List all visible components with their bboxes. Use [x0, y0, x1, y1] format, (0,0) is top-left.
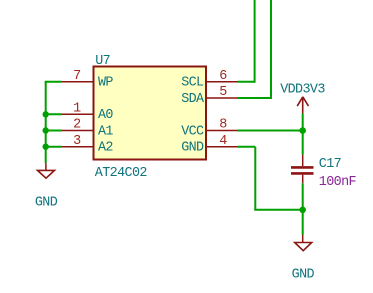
wire pin3 to bus: [46, 146, 62, 148]
svg-text:A1: A1: [98, 124, 113, 139]
wire SCL vertical: [254, 0, 256, 83]
power symbol VDD3V3 arrow: [297, 97, 308, 114]
wire VCC to rail: [238, 130, 303, 132]
svg-text:5: 5: [219, 85, 227, 100]
junction at A1: [43, 127, 49, 133]
junction at A2: [43, 144, 49, 150]
svg-text:4: 4: [219, 134, 227, 149]
pin 7 WP stub: [62, 81, 94, 83]
svg-text:6: 6: [219, 69, 227, 84]
svg-text:GND: GND: [292, 268, 315, 283]
svg-text:100nF: 100nF: [319, 175, 357, 190]
pin 2 A1 stub: [62, 130, 94, 132]
svg-text:AT24C02: AT24C02: [95, 166, 148, 181]
svg-text:2: 2: [73, 118, 81, 133]
svg-text:8: 8: [219, 118, 227, 133]
ground symbol right triangle: [295, 243, 312, 251]
svg-text:A2: A2: [98, 141, 113, 156]
svg-text:3: 3: [73, 134, 81, 149]
wire SDA vertical: [270, 0, 272, 99]
capacitor C17 top plate: [291, 166, 314, 169]
wire GND bottom horizontal: [254, 209, 302, 211]
junction GND rail: [299, 207, 306, 214]
wire left bus vertical: [45, 82, 47, 163]
wire pin7 to bus: [45, 81, 62, 83]
wire GND vertical down: [254, 147, 256, 210]
svg-text:A0: A0: [98, 108, 113, 123]
pin 1 A0 stub: [62, 113, 94, 115]
wire SCL horizontal: [238, 81, 255, 83]
wire VDD lead to junction: [302, 113, 304, 130]
capacitor C17 bottom lead: [302, 175, 304, 184]
wire cap bottom to junction: [302, 183, 304, 210]
wire pin1 to bus: [46, 113, 62, 115]
ground symbol left lead: [45, 163, 47, 170]
svg-text:1: 1: [73, 102, 81, 117]
pin 6 SCL stub: [206, 81, 238, 83]
svg-text:WP: WP: [98, 76, 113, 91]
wire junction to ground: [302, 210, 304, 235]
ground symbol right lead: [302, 235, 304, 243]
junction VCC rail: [299, 127, 306, 134]
wire GND pin4 horizontal: [238, 146, 256, 148]
svg-text:SCL: SCL: [181, 76, 204, 91]
svg-text:SDA: SDA: [181, 92, 205, 107]
svg-text:GND: GND: [35, 196, 58, 211]
svg-text:VDD3V3: VDD3V3: [280, 82, 325, 97]
pin 3 A2 stub: [62, 146, 94, 148]
wire rail junction to cap: [302, 131, 304, 155]
svg-text:U7: U7: [95, 54, 110, 69]
pin 8 VCC stub: [206, 130, 238, 132]
svg-text:7: 7: [73, 69, 80, 84]
svg-text:VCC: VCC: [181, 124, 204, 139]
ground symbol left triangle: [38, 170, 55, 178]
wire pin2 to bus: [46, 130, 62, 132]
capacitor C17 top lead: [302, 155, 304, 166]
svg-text:GND: GND: [181, 141, 204, 156]
capacitor C17 bottom plate: [291, 172, 314, 175]
junction at A0: [43, 111, 49, 117]
pin 5 SDA stub: [206, 97, 238, 99]
wire SDA horizontal: [238, 97, 272, 99]
IC U7 body: [94, 67, 207, 160]
pin 4 GND stub: [206, 146, 238, 148]
svg-text:C17: C17: [319, 157, 341, 172]
